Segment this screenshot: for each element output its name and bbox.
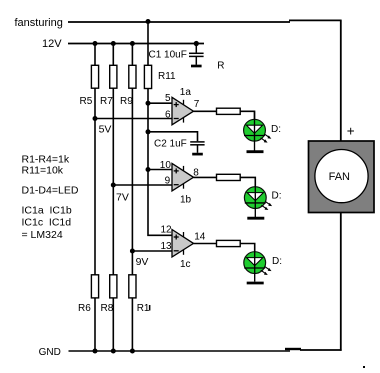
resistor R10 bbox=[129, 275, 136, 298]
svg-text:D:: D: bbox=[272, 191, 282, 202]
node 12V-R9 junction bbox=[130, 41, 135, 46]
fan M1 bbox=[309, 141, 375, 213]
wire right rail bottom (FAN - to GND) bbox=[340, 213, 342, 351]
node GND-R10 junction bbox=[130, 349, 135, 354]
node 12V-R5 junction bbox=[93, 41, 98, 46]
node 7V junction bbox=[111, 183, 116, 188]
node pin10 junction bbox=[146, 167, 151, 172]
wire 9V to pin13 bbox=[132, 250, 172, 252]
node fansturing junction bbox=[146, 19, 151, 24]
svg-text:9: 9 bbox=[165, 175, 171, 186]
wire 5V to pin6 bbox=[95, 118, 173, 120]
svg-text:R8: R8 bbox=[101, 303, 114, 314]
svg-text:R11: R11 bbox=[158, 71, 176, 82]
node 12V-C1 junction bbox=[194, 41, 199, 46]
LED D1 bbox=[244, 111, 272, 150]
svg-text:14: 14 bbox=[194, 232, 206, 243]
svg-text:1a: 1a bbox=[180, 87, 192, 98]
wire divider column A bbox=[94, 44, 96, 352]
svg-text:13: 13 bbox=[161, 241, 173, 252]
LED D2 bbox=[244, 177, 272, 217]
resistor output 1a bbox=[217, 108, 241, 114]
svg-text:IC1a IC1b: IC1a IC1b bbox=[22, 205, 72, 217]
wire pin5 bbox=[148, 102, 173, 104]
ground bar D2 bbox=[247, 217, 264, 220]
svg-text:R11=10k: R11=10k bbox=[22, 165, 64, 177]
wire pin10 bbox=[148, 169, 173, 171]
op-amp U1a bbox=[172, 97, 194, 125]
svg-text:C1 10uF: C1 10uF bbox=[149, 50, 187, 61]
svg-text:D:: D: bbox=[272, 256, 282, 267]
svg-text:9V: 9V bbox=[136, 256, 149, 268]
wire fansturing right segment bbox=[289, 19, 342, 21]
svg-text:1b: 1b bbox=[180, 194, 192, 205]
svg-text:R: R bbox=[217, 60, 224, 71]
wire right rail top (to FAN +) bbox=[340, 20, 342, 141]
svg-text:FAN: FAN bbox=[329, 171, 350, 183]
svg-text:R1-R4=1k: R1-R4=1k bbox=[22, 154, 70, 166]
svg-text:6: 6 bbox=[165, 109, 171, 120]
svg-text:12V: 12V bbox=[42, 38, 62, 50]
wire GND rail bbox=[69, 350, 291, 352]
wire 7V to pin9 bbox=[113, 184, 172, 186]
capacitor C2 bbox=[190, 142, 204, 154]
wire resistor to LED D2 bbox=[240, 177, 255, 186]
wire R11 column (fansturing to pin12) bbox=[148, 22, 173, 236]
svg-text:R7: R7 bbox=[100, 96, 113, 107]
resistor R9 bbox=[129, 65, 136, 88]
node 12V-R7 junction bbox=[111, 41, 116, 46]
resistor R8 bbox=[110, 275, 117, 298]
resistor R6 bbox=[91, 275, 98, 298]
op-amp U1b bbox=[172, 163, 194, 191]
svg-text:5V: 5V bbox=[99, 124, 112, 136]
wire GND right segment bbox=[300, 349, 342, 351]
node GND-R8 junction bbox=[111, 349, 116, 354]
op-amp U1c bbox=[172, 230, 194, 258]
wire output 1c bbox=[194, 243, 218, 245]
svg-text:R6: R6 bbox=[78, 303, 91, 314]
wire 12V rail bbox=[68, 43, 204, 45]
svg-text:+: + bbox=[347, 124, 355, 139]
wire output 1b bbox=[194, 176, 218, 178]
wire fansturing horizontal bbox=[68, 21, 290, 23]
wire GND jog bbox=[285, 348, 301, 350]
node pin5 junction bbox=[146, 101, 151, 106]
resistor output 1c bbox=[217, 240, 241, 246]
svg-text:12: 12 bbox=[161, 224, 173, 235]
svg-text:IC1c IC1d: IC1c IC1d bbox=[22, 217, 72, 229]
svg-text:1c: 1c bbox=[180, 259, 191, 270]
svg-text:R9: R9 bbox=[120, 96, 133, 107]
svg-text:D:: D: bbox=[271, 124, 281, 135]
node 5V junction bbox=[93, 116, 98, 121]
notes text block bbox=[22, 154, 79, 241]
node C2 junction bbox=[146, 129, 151, 134]
wire to C2 bbox=[148, 132, 198, 141]
wire output 1a bbox=[194, 110, 218, 112]
node GND-R6 junction bbox=[93, 349, 98, 354]
capacitor C1 bbox=[189, 44, 204, 67]
svg-text:7: 7 bbox=[194, 99, 200, 110]
svg-text:R5: R5 bbox=[80, 96, 93, 107]
svg-text:C2 1uF: C2 1uF bbox=[154, 138, 187, 149]
resistor R11 bbox=[144, 65, 151, 88]
wire resistor to LED D3 bbox=[240, 244, 255, 252]
ground bar D1 bbox=[247, 150, 264, 153]
LED D3 bbox=[244, 244, 272, 282]
svg-text:fansturing: fansturing bbox=[15, 17, 63, 29]
svg-text:GND: GND bbox=[39, 347, 61, 358]
svg-text:7V: 7V bbox=[116, 192, 129, 204]
svg-text:= LM324: = LM324 bbox=[22, 229, 63, 241]
svg-text:10: 10 bbox=[160, 160, 172, 171]
resistor output 1b bbox=[217, 174, 241, 180]
wire divider column B bbox=[112, 44, 114, 352]
svg-text:5: 5 bbox=[165, 93, 171, 104]
resistor R7 bbox=[110, 65, 117, 88]
svg-text:R1: R1 bbox=[137, 303, 150, 314]
resistor R5 bbox=[91, 65, 98, 88]
svg-text:D1-D4=LED: D1-D4=LED bbox=[22, 185, 79, 197]
wire resistor to LED D1 bbox=[240, 111, 254, 119]
stray mark bbox=[363, 366, 365, 368]
node 9V junction bbox=[130, 249, 135, 254]
ground bar D3 bbox=[247, 282, 264, 285]
wire divider column C bbox=[131, 44, 133, 352]
